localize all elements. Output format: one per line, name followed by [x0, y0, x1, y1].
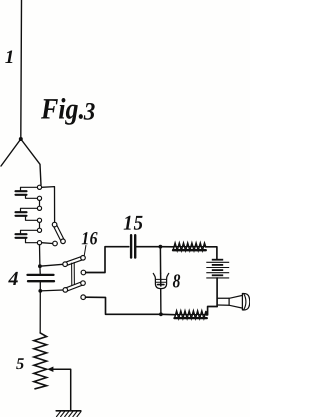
wire lower contact to bottom rail: [86, 297, 161, 314]
wire node C down to detector: [159, 249, 161, 274]
resistor R5 zigzag: [34, 333, 47, 389]
node A junction dot: [38, 264, 42, 268]
wire node A to switch 16 upper arm: [40, 264, 63, 266]
switch 16 lower fixed contact: [81, 295, 86, 300]
capacitor C3 plates: [16, 233, 27, 235]
label 1: [5, 50, 12, 63]
label Fig.3: [41, 98, 83, 125]
switch 16 link (insulating bar): [71, 263, 73, 287]
capacitor C2 plates: [16, 211, 27, 213]
capacitor C1 plates: [16, 190, 27, 192]
wire node C to resistor R-top: [160, 246, 173, 248]
tap arrow on R5: [47, 367, 53, 373]
wire stud4-stud5 connector: [39, 220, 41, 230]
wire node A to capacitor 4: [39, 266, 41, 273]
switch arm S1 rod: [55, 225, 63, 242]
switch 16 upper arm rod: [65, 258, 83, 264]
wire capacitor 4 to node B: [39, 281, 41, 291]
capacitor bank C1 leads: [21, 187, 38, 190]
label 16: [82, 232, 98, 244]
label 4: [8, 272, 18, 285]
stud contacts (bank): [37, 185, 41, 245]
battery plates: [206, 260, 229, 278]
wire node B to switch 16 lower arm: [40, 289, 63, 292]
wire upper contact to capacitor 15: [86, 247, 129, 273]
wire battery down to phone tee: [216, 278, 218, 307]
wire R-top to battery: [206, 247, 217, 259]
wire detector electrode through cup: [160, 273, 162, 286]
node antenna junction: [19, 137, 23, 141]
wire stud6 to fixed contact: [42, 242, 53, 245]
wire tap to ground: [53, 369, 71, 411]
capacitor bank C3 leads: [21, 230, 38, 233]
telephone receiver P: [217, 293, 250, 310]
resistor R-top (lattice winding): [173, 243, 206, 250]
node C junction dot: [159, 245, 163, 249]
ground symbol: [56, 410, 81, 412]
leader line for 16: [84, 246, 86, 256]
detector cup 8: [153, 273, 168, 288]
wire antenna left branch: [1, 139, 21, 166]
wire node B down to resistor 5: [39, 291, 41, 333]
capacitor C15 plates: [130, 235, 132, 257]
wire stud2-stud3 connector: [39, 198, 41, 208]
wire stud1 to switch arm pivot: [42, 187, 55, 223]
node B junction dot: [38, 289, 42, 293]
wire node D to R-bot: [161, 313, 175, 315]
switch 16 lower arm rod: [65, 283, 83, 290]
wire antenna right branch to stud 1: [21, 139, 41, 185]
label 5: [16, 358, 24, 369]
capacitor bank C2 leads: [21, 208, 38, 211]
wire capacitor 15 to node C: [136, 246, 160, 248]
switch 16 upper fixed contact: [81, 270, 86, 275]
wire detector bottom to rail: [160, 289, 162, 315]
capacitor C4 plates: [28, 274, 54, 276]
wire stud6 down to node A: [39, 245, 41, 266]
wire antenna lead-in vertical: [20, 0, 23, 139]
switch S1 fixed contact: [53, 241, 58, 246]
label 8: [173, 274, 180, 287]
resistor R-bot (lattice winding): [175, 311, 207, 318]
label 15: [124, 216, 143, 230]
wire phone tee step down to resistor R-bot: [206, 307, 217, 315]
node D junction dot: [159, 312, 163, 316]
